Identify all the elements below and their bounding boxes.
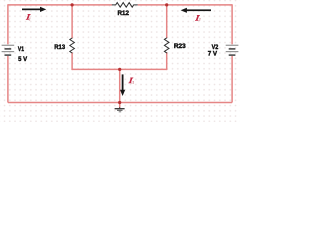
wire center drop to ground <box>119 69 121 107</box>
wire top-left segment <box>8 4 112 6</box>
node junction R23 top <box>165 3 168 6</box>
current arrow I3 <box>120 74 125 96</box>
wire R13 bottom lead <box>71 52 73 70</box>
wire R13 top lead <box>71 5 73 38</box>
node junction bus center <box>118 68 121 71</box>
wire left upper <box>7 4 9 44</box>
svg-text:R12: R12 <box>118 10 130 17</box>
svg-text:5 V: 5 V <box>18 56 28 63</box>
svg-text:R13: R13 <box>54 44 65 51</box>
wire right lower <box>231 56 233 103</box>
wire right upper <box>231 4 233 44</box>
wire R23 top lead <box>166 5 168 38</box>
svg-text:V1: V1 <box>18 46 24 53</box>
ground <box>115 107 125 112</box>
wire R23 bottom lead <box>166 52 168 70</box>
battery V1 <box>2 45 15 55</box>
wire bottom <box>8 102 232 104</box>
background dot grid <box>0 0 240 122</box>
svg-text:R23: R23 <box>174 43 186 50</box>
resistor R13 <box>70 38 75 54</box>
resistor R12 <box>112 3 138 8</box>
wire top-right segment <box>138 4 232 6</box>
node junction R13 top <box>71 3 74 6</box>
wire left lower <box>7 56 9 103</box>
current arrow I2 <box>181 8 211 13</box>
node junction bottom wire <box>118 101 121 104</box>
current arrow I1 <box>22 7 46 12</box>
battery V2 <box>226 45 239 55</box>
wire middle bus <box>72 68 167 70</box>
svg-text:7 V: 7 V <box>208 50 218 57</box>
resistor R23 <box>164 38 169 54</box>
svg-text:1: 1 <box>29 16 31 21</box>
